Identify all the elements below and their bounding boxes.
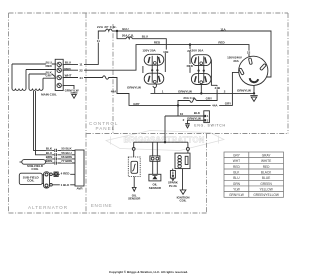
svg-text:55 BLK: 55 BLK	[61, 147, 72, 151]
wire alternator rows 66 and 77 from sub-field coil	[46, 159, 75, 163]
wire alternator row 56	[58, 154, 76, 156]
junction dots	[116, 30, 255, 144]
node kill wire junction	[164, 141, 166, 143]
wire main coil sub winding pair	[34, 91, 55, 155]
svg-text:RED: RED	[263, 165, 270, 169]
svg-text:GRAY: GRAY	[262, 154, 272, 158]
svg-text:GRN/YLW: GRN/YLW	[127, 86, 141, 90]
connector sub-field	[44, 172, 59, 188]
svg-text:AVR: AVR	[76, 187, 83, 191]
wire GRN/YLW ground run across receptacles	[151, 88, 255, 94]
node GRN/YLW twist-lock	[253, 92, 255, 94]
node top breaker junction	[116, 30, 118, 32]
svg-text:22: 22	[187, 49, 191, 53]
watermark Briggs & Stratton logo	[106, 131, 224, 151]
svg-text:BLACK: BLACK	[261, 171, 272, 175]
wire alternator row 55	[58, 149, 76, 151]
svg-text:BLK: BLK	[46, 147, 53, 151]
svg-text:RED: RED	[218, 41, 225, 45]
svg-text:4 RED: 4 RED	[61, 171, 71, 175]
svg-text:11: 11	[79, 62, 83, 66]
border outer right	[287, 13, 289, 134]
svg-text:10: 10	[180, 112, 184, 116]
receptacle R2 duplex 120V 20A	[191, 55, 217, 94]
svg-text:BRIGGS&STRATTON: BRIGGS&STRATTON	[123, 136, 204, 145]
wire row 4 RED	[52, 173, 75, 175]
svg-text:PANEL: PANEL	[96, 126, 116, 131]
wire pin4 to ground GRN/YLW	[63, 85, 75, 92]
breaker 20A C.B. squiggle	[126, 37, 132, 39]
svg-text:RED: RED	[233, 165, 240, 169]
svg-text:WHITE: WHITE	[261, 159, 271, 163]
svg-text:GRY: GRY	[133, 102, 139, 106]
wire 11 BLU riser and top run through 22A 2P C.B.	[63, 31, 106, 64]
wire 22 RED: coil lead to pin2	[26, 69, 56, 71]
svg-text:COIL: COIL	[180, 199, 187, 203]
svg-text:20A C.B.: 20A C.B.	[183, 96, 195, 100]
svg-text:SENSOR: SENSOR	[128, 197, 141, 201]
wire 11A top run to twist-lock	[112, 31, 271, 77]
svg-text:SENSOR: SENSOR	[149, 186, 162, 190]
svg-text:11A: 11A	[220, 27, 226, 31]
wire coil lead 4	[43, 77, 56, 79]
svg-text:30A: 30A	[233, 59, 239, 63]
svg-text:GREEN/YELLOW: GREEN/YELLOW	[253, 193, 279, 197]
border alternator left	[8, 13, 10, 213]
svg-text:Copyright © Briggs & Stratton,: Copyright © Briggs & Stratton, LLC. All …	[109, 270, 188, 274]
border outer top	[9, 12, 289, 14]
svg-text:RED: RED	[64, 67, 71, 71]
receptacle R3 twist-lock 120V/240V 30A	[239, 56, 268, 85]
svg-text:BLK: BLK	[233, 171, 240, 175]
svg-text:RED: RED	[46, 64, 53, 68]
svg-text:BLU: BLU	[122, 27, 128, 31]
AVR box	[75, 150, 84, 186]
svg-text:BLU: BLU	[233, 176, 240, 180]
svg-text:WHT: WHT	[65, 73, 72, 77]
svg-text:ENG. SWITCH: ENG. SWITCH	[194, 124, 225, 128]
svg-text:20A C.B.: 20A C.B.	[122, 33, 134, 37]
svg-text:GRY: GRY	[206, 97, 212, 101]
wire row 1 BLK	[52, 184, 75, 186]
svg-text:ALTERNATOR: ALTERNATOR	[28, 205, 68, 210]
border bottom	[9, 212, 207, 214]
svg-text:120V 20A: 120V 20A	[142, 48, 156, 52]
svg-text:WHT: WHT	[233, 159, 240, 163]
wire 44 GRY run with service loop	[63, 72, 239, 105]
WIRE LABELS	[97, 25, 251, 68]
sub-field coil 2	[19, 173, 42, 184]
node receptacle 2 hot	[189, 43, 191, 45]
white label underlays	[46, 39, 251, 186]
legend table	[224, 152, 284, 197]
svg-text:22A 2P C.B.: 22A 2P C.B.	[97, 25, 117, 29]
ground symbol at engine switch	[185, 124, 190, 128]
svg-text:ENGINE: ENGINE	[91, 203, 112, 208]
svg-text:GREEN: GREEN	[260, 182, 272, 186]
svg-text:YELLOW: YELLOW	[259, 187, 272, 191]
svg-text:GRN/YLW: GRN/YLW	[178, 90, 192, 94]
svg-text:11B: 11B	[163, 50, 169, 54]
svg-text:44A: 44A	[212, 103, 218, 107]
wire 22 RED run to riser	[63, 45, 250, 71]
svg-text:GRY: GRY	[46, 74, 52, 78]
svg-text:BRN: BRN	[46, 159, 53, 163]
wire twist-lock ground stub	[253, 85, 255, 93]
svg-text:COIL: COIL	[31, 167, 38, 171]
svg-text:GRN/YLW: GRN/YLW	[237, 89, 251, 93]
border engine right	[206, 134, 208, 214]
svg-text:44: 44	[79, 76, 83, 80]
svg-text:77 BRN: 77 BRN	[61, 159, 72, 163]
svg-text:1 BLK: 1 BLK	[61, 183, 71, 187]
svg-text:YLW: YLW	[233, 187, 240, 191]
svg-text:BLK: BLK	[194, 111, 201, 115]
svg-text:22: 22	[247, 50, 251, 54]
wire engine switch pin 2 to ground	[188, 120, 205, 123]
ground symbol main coil GRN/YLW	[71, 93, 78, 98]
oil sensor module (diode)	[149, 156, 161, 181]
svg-text:GRN: GRN	[233, 182, 241, 186]
svg-text:44B: 44B	[215, 86, 221, 90]
svg-text:11: 11	[97, 39, 101, 43]
wire sub-field coil 2 leads	[42, 175, 44, 184]
svg-text:120V 20A: 120V 20A	[190, 49, 204, 53]
spark plug	[170, 171, 175, 181]
wire ignition coil stub	[187, 142, 189, 147]
svg-text:COIL: COIL	[27, 179, 34, 183]
svg-text:BLUE: BLUE	[262, 176, 270, 180]
node GRN/YLW rec2	[200, 92, 202, 94]
border alternator right	[85, 13, 87, 213]
MAIN WIRES	[12, 29, 271, 185]
ground symbol at twist-lock	[250, 96, 257, 102]
svg-text:GRN/YLW: GRN/YLW	[229, 193, 244, 197]
oil sensor switch (left)	[128, 148, 140, 192]
section borders (dash-dot)	[9, 13, 289, 213]
wire oil sensor module to diode box	[153, 161, 158, 174]
connector main coil 4-pin	[55, 59, 63, 90]
svg-text:GRN/YLW: GRN/YLW	[187, 116, 201, 120]
svg-text:RED: RED	[154, 40, 161, 44]
wire oil sensor module stubs	[153, 142, 158, 156]
wire 44B receptacle 2 neutral drop	[196, 85, 217, 100]
svg-text:GRY: GRY	[225, 102, 231, 106]
svg-text:GRN/YLW: GRN/YLW	[65, 89, 79, 93]
wire 44: coil lead to pin3	[29, 74, 56, 77]
svg-text:22: 22	[79, 68, 83, 72]
wire 22 RED drop to receptacle 2	[189, 45, 191, 73]
border control panel left	[112, 24, 114, 134]
connector engine switch	[204, 111, 210, 123]
wire 20A C.B. branch BLU	[117, 31, 126, 39]
wire 11 BLU: main coil lead to pin1	[12, 63, 56, 65]
wire 10 kill wire drop	[164, 116, 166, 142]
inline connectors alternator rows	[55, 149, 57, 165]
svg-text:BLU: BLU	[142, 34, 148, 38]
border control panel bottom	[86, 133, 288, 135]
wire engine harness run	[134, 141, 188, 143]
receptacle R1 duplex 120V 20A	[143, 53, 165, 88]
svg-text:GRY: GRY	[233, 154, 241, 158]
ignition coil	[173, 147, 190, 194]
sub-field coil 1	[20, 160, 46, 165]
section label CONTROL PANEL	[89, 121, 118, 131]
wire 11B drop to receptacle 1	[132, 39, 166, 50]
svg-text:PLUG: PLUG	[169, 184, 178, 188]
node GRY 44A junction	[177, 104, 179, 106]
wire 44B to junction	[178, 101, 190, 117]
wire engine switch pin 1	[165, 115, 204, 117]
svg-text:RED: RED	[187, 64, 194, 68]
svg-text:BLU: BLU	[65, 61, 71, 65]
svg-text:44A: 44A	[111, 90, 117, 94]
breaker 22A 2P C.B. squiggle	[106, 29, 113, 31]
wire oil sensor switch stub	[133, 142, 135, 147]
breaker 20A C.B. squiggle lower	[190, 99, 196, 103]
main coil winding 2	[29, 74, 43, 90]
svg-text:MAIN COIL: MAIN COIL	[41, 92, 57, 96]
main coil winding 1	[12, 64, 26, 90]
